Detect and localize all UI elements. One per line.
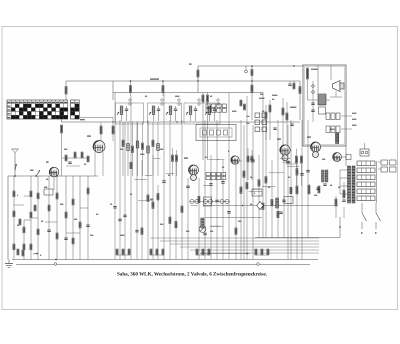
IF transformer coil unit 1 [117, 99, 131, 121]
connector jogs [134, 159, 299, 227]
wire screen bus right drop [299, 81, 301, 120]
resistor pair AF3 left [171, 148, 177, 176]
hatched choke [336, 133, 339, 144]
wire bus y92 [113, 92, 263, 94]
trimmer pair box [204, 197, 212, 206]
bottom-left detail [17, 249, 41, 256]
small box mid [252, 189, 262, 196]
resistor R1b below screen bus [162, 81, 164, 96]
trimmer double boxes [206, 173, 226, 180]
resistor screen bus left [65, 87, 67, 95]
tube V3 [184, 158, 199, 180]
label ra [189, 63, 192, 65]
IF unit box 2 outline [148, 103, 182, 124]
filter box with contacts [196, 125, 236, 141]
resistor on top bus drop [197, 70, 199, 77]
resistor R mid top stacked [251, 66, 253, 120]
label 2a cond [150, 78, 159, 80]
tube V4 [228, 151, 239, 164]
tube V6 [307, 137, 321, 157]
IF transformer coil unit 4 [186, 99, 200, 121]
caption text [117, 272, 268, 278]
scattered value labels [46, 94, 332, 235]
left resistor cluster [13, 191, 39, 250]
components on vertical wires [113, 160, 309, 235]
tube V6b [330, 129, 351, 161]
resistor below table [61, 125, 63, 176]
vertical wiring bundle [115, 93, 308, 260]
mid-left component patch [62, 100, 246, 166]
hatched coil mid-bottom [201, 218, 204, 228]
wire screen bus [66, 80, 300, 82]
trimmer circle pairs [189, 199, 230, 203]
wire top bus left drop [197, 66, 199, 93]
antenna switch arrow [15, 164, 17, 170]
mains switches [361, 203, 381, 233]
wire screen bus left drop [65, 81, 67, 100]
resistor right mid [338, 182, 346, 202]
IF output coil row 2 [326, 126, 352, 133]
resistor R1a below screen bus [129, 81, 131, 96]
switch diag left [30, 170, 40, 176]
speaker box leads labels [352, 113, 356, 125]
mid horizontal 1 [203, 205, 338, 206]
bottom bus 2 [16, 263, 310, 266]
tube V1 [46, 162, 59, 190]
resistor pair right [335, 196, 344, 218]
resistor field coil [306, 68, 318, 79]
ground symbol [5, 260, 13, 268]
output transformer in box [318, 94, 326, 114]
terminal circle near top [245, 66, 248, 73]
IF unit box 1 outline [116, 103, 144, 124]
left labels [17, 195, 43, 225]
wire bus left drop [112, 81, 114, 100]
capacitor block 2x3 [247, 113, 267, 132]
wire y253 [200, 253, 250, 255]
hatched bar mid-right [276, 198, 279, 208]
cap cluster top bus right [288, 81, 295, 89]
band-switch code table right block [71, 100, 80, 119]
resistor pairs mid [247, 148, 253, 180]
oscillator coil bank [122, 122, 159, 176]
resistors near rectifier [296, 184, 327, 194]
band-switch code table [7, 100, 68, 119]
small box mid-right [279, 197, 293, 214]
bottom bus [12, 259, 318, 261]
power transformer core [348, 166, 356, 203]
mid horizontal 2 [205, 217, 262, 219]
tuning indicator circle [199, 226, 206, 233]
wire under code table [62, 119, 301, 123]
capacitor left [44, 187, 53, 195]
speaker section box [303, 65, 346, 146]
resistor pair y93 [202, 93, 209, 161]
svg-text:Saba, 360 WLK, Wechselstrom, 2: Saba, 360 WLK, Wechselstrom, 2 Valvole, … [117, 272, 268, 278]
transformer right rail [376, 161, 378, 203]
transformer top fuse [360, 143, 369, 156]
mains plugs [378, 160, 396, 172]
tube V5 [277, 139, 290, 161]
resistor screen bus right [299, 87, 301, 94]
wire top bus [198, 65, 303, 67]
speaker [330, 81, 344, 98]
horizontal harness bundle [150, 238, 319, 253]
transformer primary leads [340, 170, 348, 194]
IF output coil row 1 [326, 113, 352, 120]
resistors mid-right top [259, 95, 294, 145]
wire right drop to switch [345, 146, 347, 166]
wires inside speaker box [308, 65, 332, 122]
bottom resistor clusters [116, 249, 269, 255]
resistor left of V6 [295, 149, 302, 187]
left cluster wires [14, 176, 38, 260]
transformer secondary stack [357, 161, 375, 201]
diamond indicator [257, 202, 263, 210]
IF unit box 3 outline [184, 103, 220, 124]
upper trimmer double row [206, 104, 227, 112]
wire grid to IF [80, 118, 113, 123]
antenna [12, 149, 19, 176]
tube V2 [87, 136, 105, 176]
IF transformer coil unit 5 [205, 99, 219, 121]
right L wire [255, 217, 341, 238]
output transformer hatched pair [314, 170, 328, 195]
left middle vertical group [14, 176, 90, 260]
wire left edge vertical [7, 176, 9, 260]
wire antenna horizontal [8, 175, 98, 177]
IF transformer coil unit 3 [166, 99, 180, 121]
IF transformer coil unit 2 [149, 99, 163, 121]
label 6k [80, 119, 85, 121]
resistor pair below bus [100, 122, 114, 141]
